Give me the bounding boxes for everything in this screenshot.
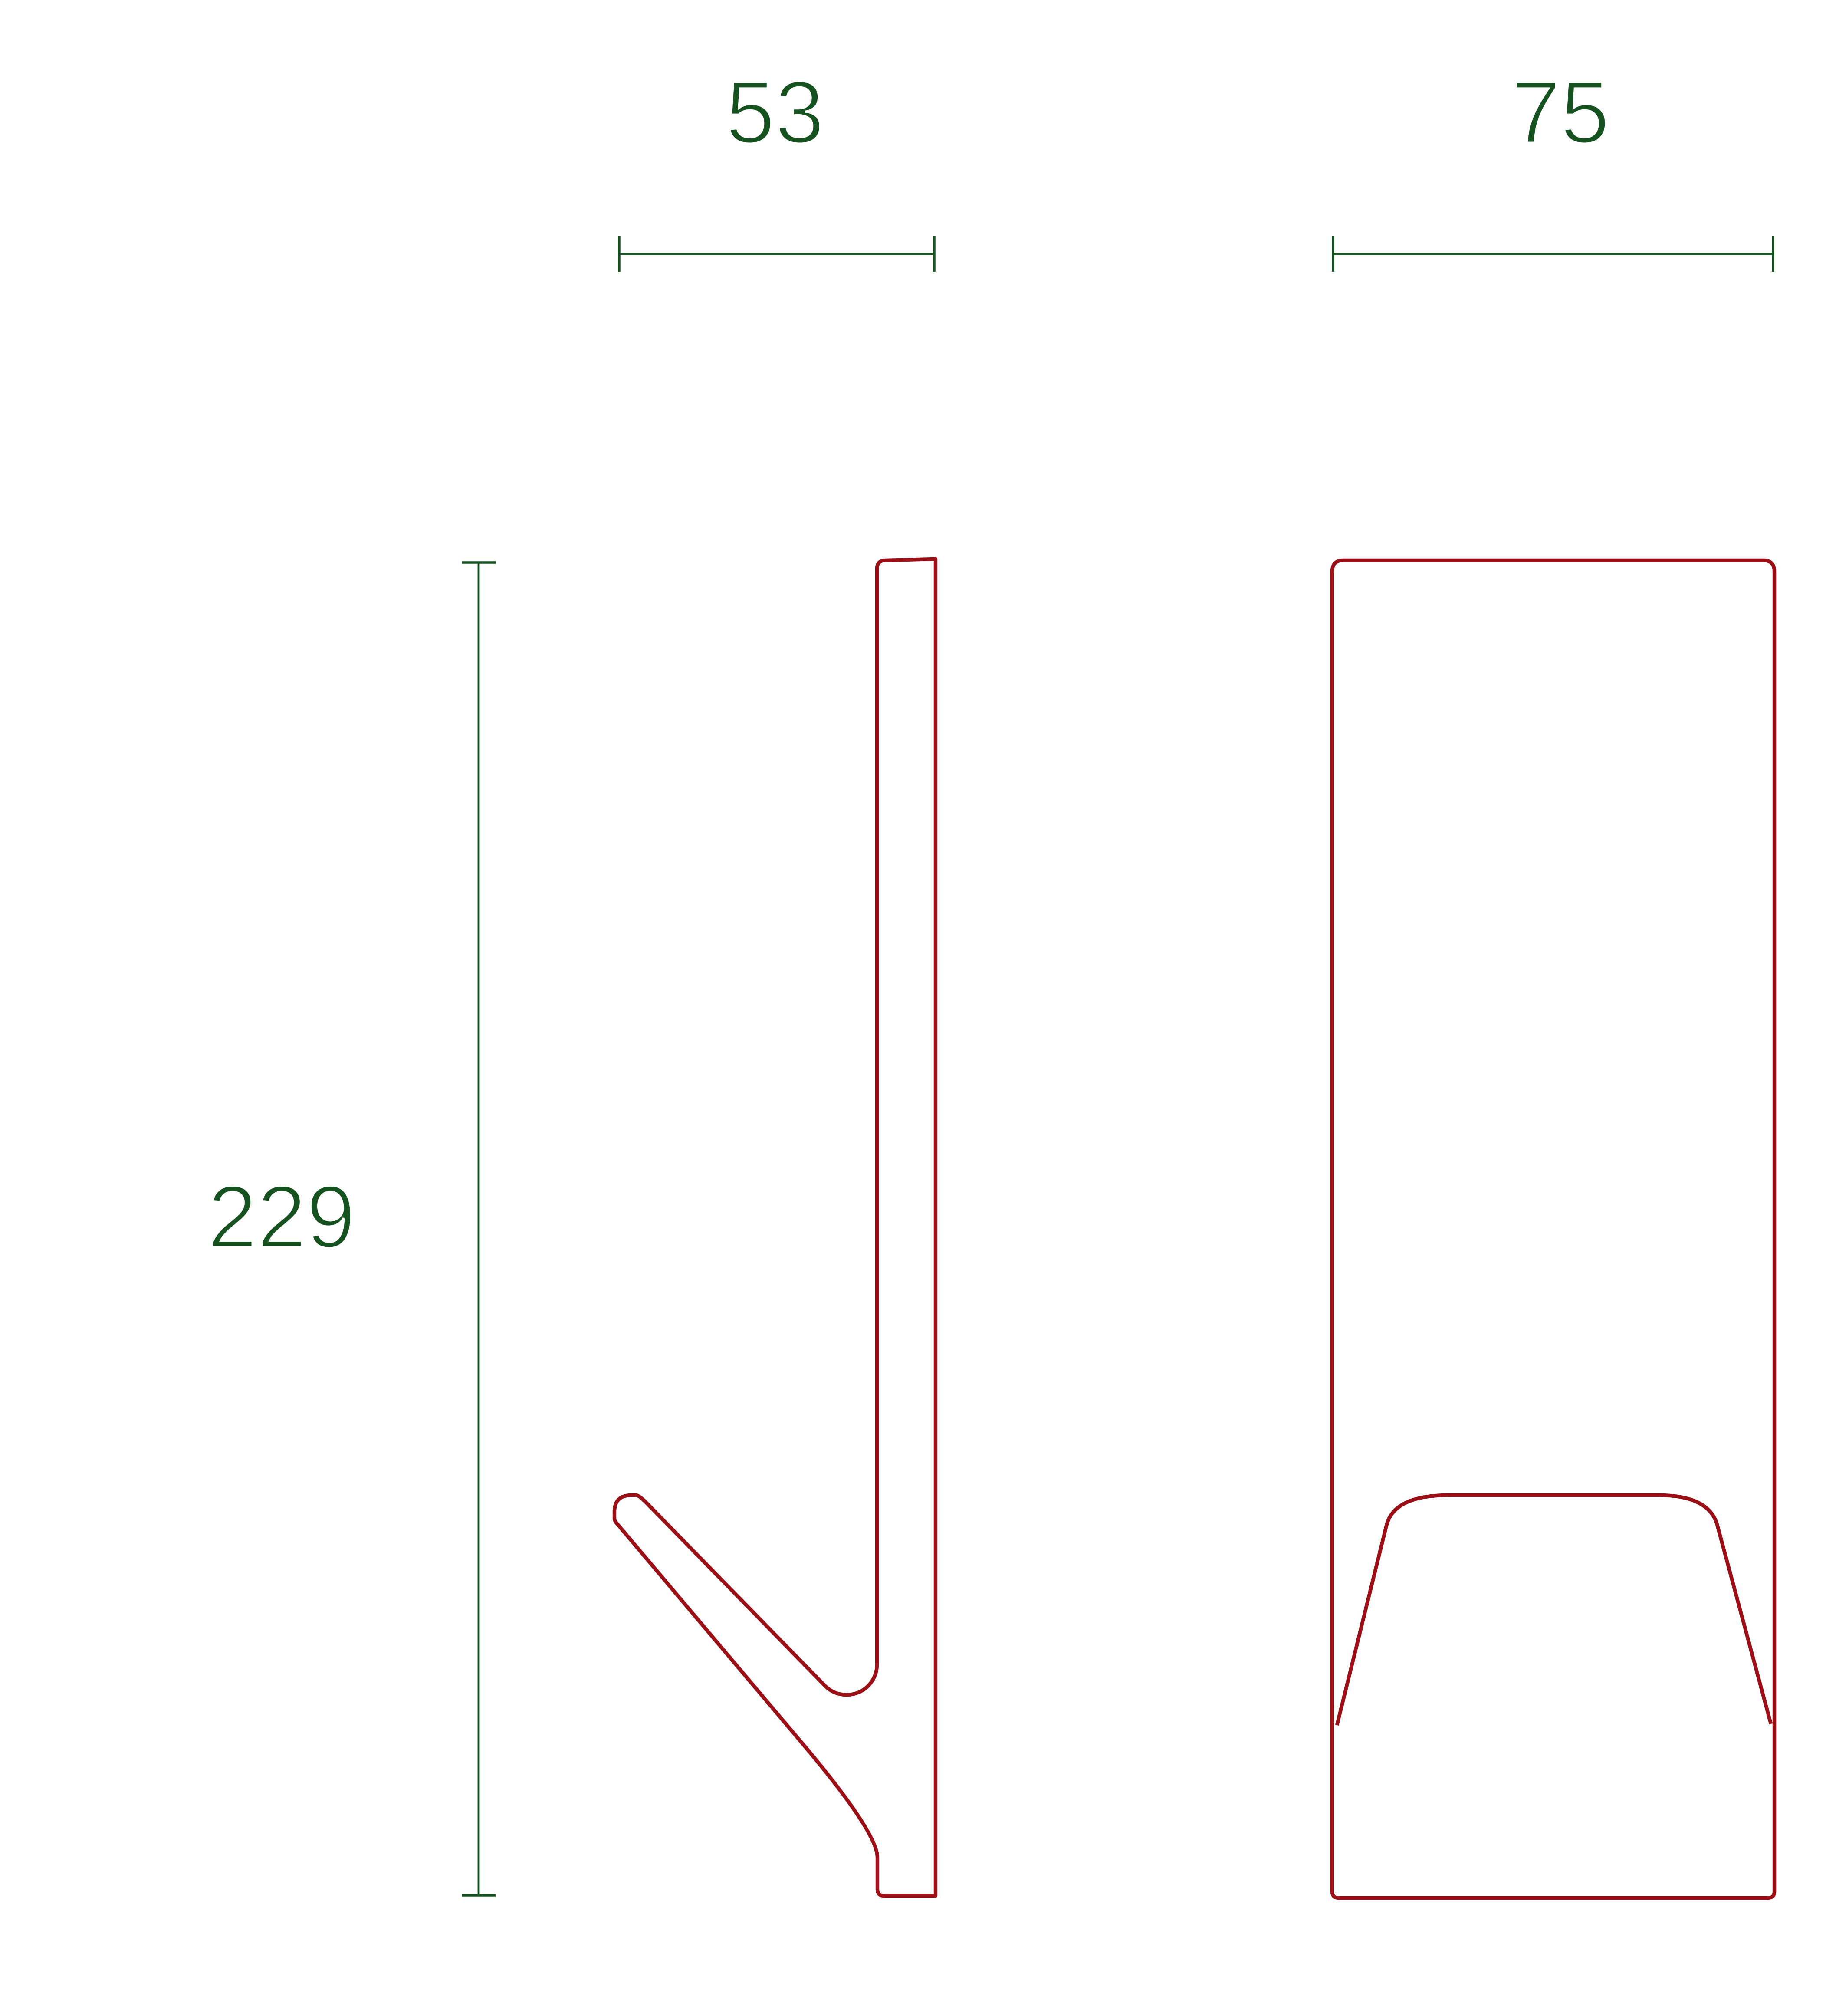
svg-text:75: 75 <box>1511 63 1610 162</box>
svg-text:229: 229 <box>208 1168 355 1266</box>
tick right of dim 75 <box>1772 236 1774 272</box>
tick bottom of dim 229 <box>462 1894 496 1897</box>
dimension line 229 <box>478 562 480 1895</box>
tick left of dim 53 <box>618 236 621 272</box>
tick left of dim 75 <box>1332 236 1334 272</box>
dimension line 75 <box>1333 253 1773 255</box>
front view body outline <box>1332 560 1774 1898</box>
svg-text:53: 53 <box>726 63 824 162</box>
tick top of dim 229 <box>462 561 496 564</box>
side view hook outline <box>614 559 936 1896</box>
tick right of dim 53 <box>933 236 936 272</box>
dimension line 53 <box>619 253 934 255</box>
front view hook silhouette <box>1337 1495 1771 1725</box>
